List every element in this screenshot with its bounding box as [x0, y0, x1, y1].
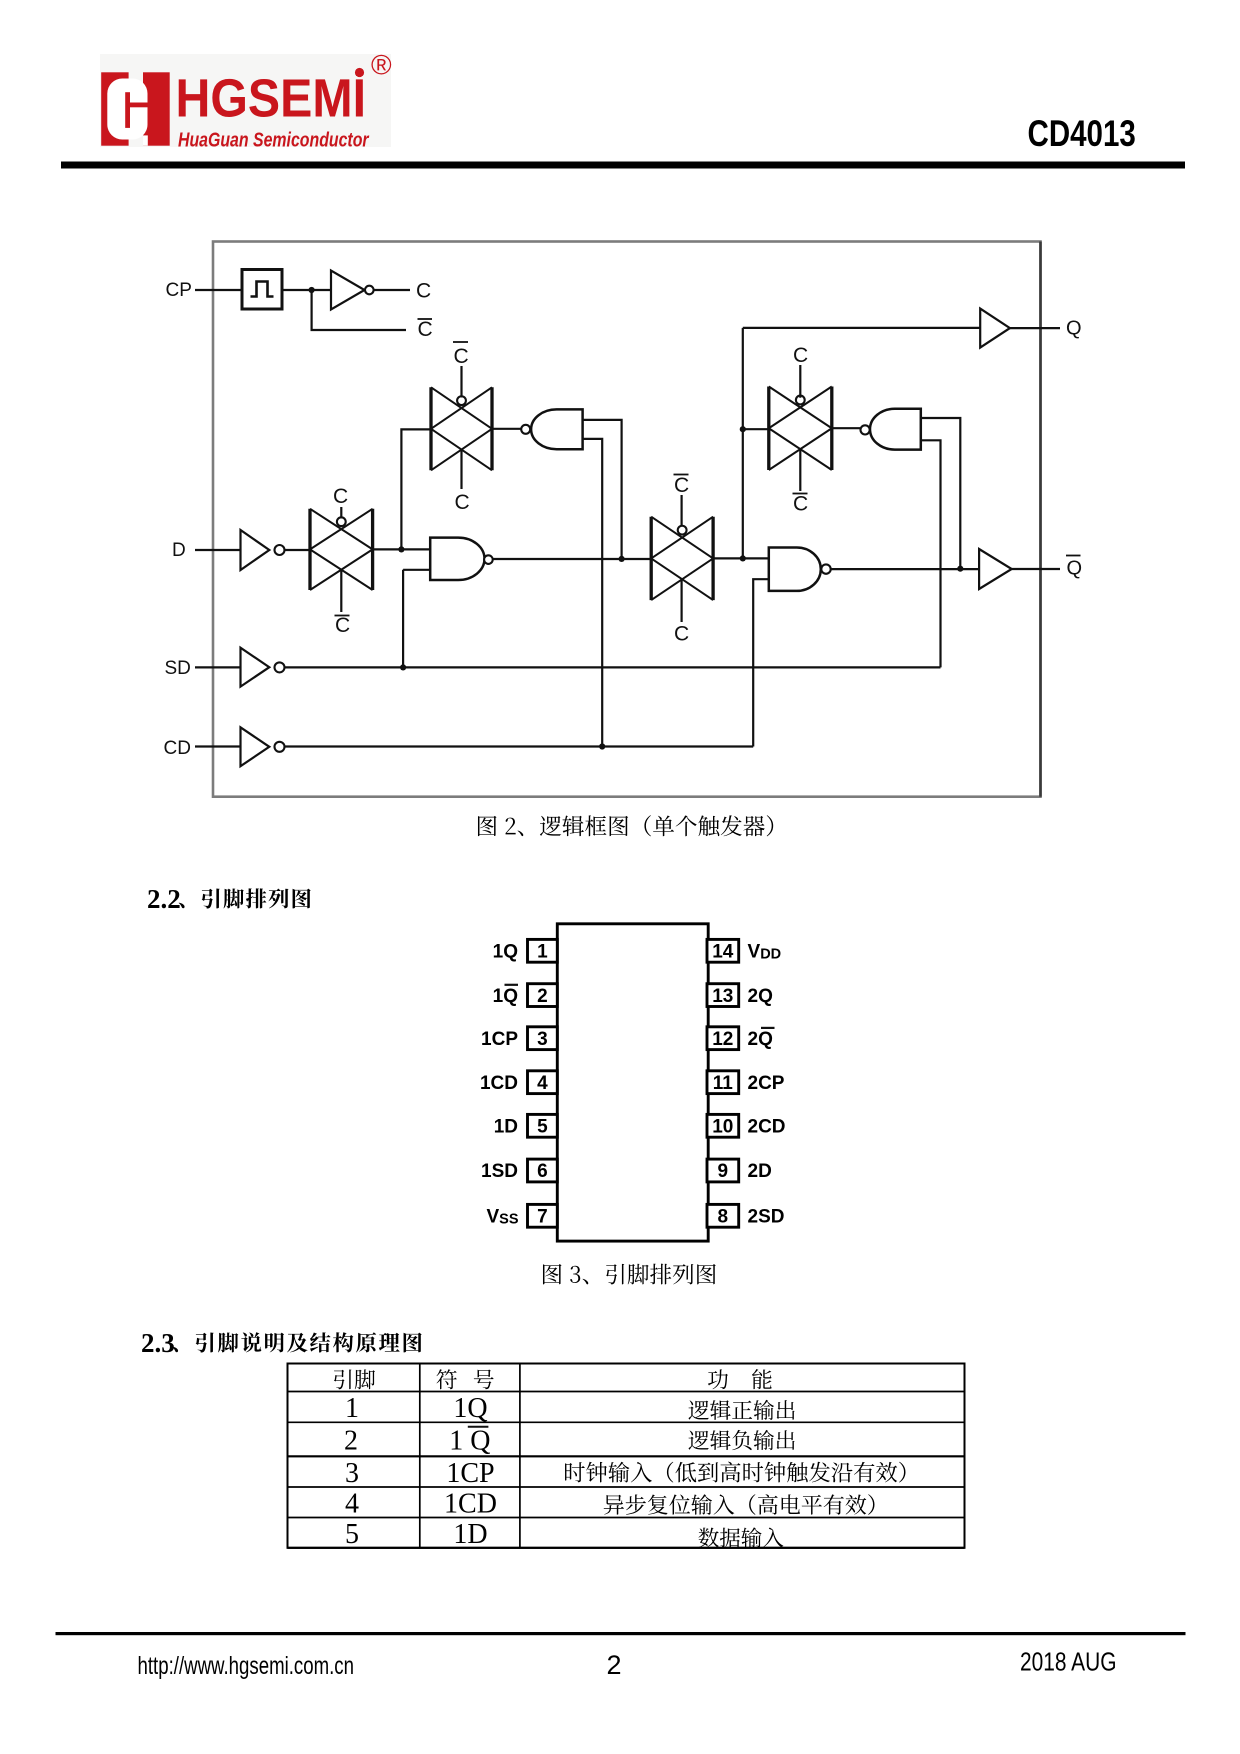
svg-text:2018 AUG: 2018 AUG [1020, 1649, 1117, 1677]
svg-text:4: 4 [537, 1073, 548, 1094]
svg-text:14: 14 [712, 942, 734, 963]
svg-text:C: C [454, 345, 469, 368]
svg-text:2.2: 2.2 [147, 884, 181, 914]
svg-text:1Q: 1Q [493, 986, 518, 1007]
svg-text:C: C [455, 491, 470, 514]
svg-text:CD4013: CD4013 [1028, 113, 1136, 154]
svg-text:2.3: 2.3 [141, 1328, 175, 1358]
svg-text:6: 6 [537, 1161, 548, 1182]
svg-text:13: 13 [712, 986, 733, 1007]
svg-text:CP: CP [166, 280, 192, 301]
svg-text:CD: CD [164, 738, 191, 759]
svg-text:1: 1 [537, 942, 548, 963]
svg-text:1 Q: 1 Q [449, 1426, 490, 1457]
svg-text:1CP: 1CP [446, 1458, 494, 1489]
svg-text:1D: 1D [494, 1117, 518, 1138]
svg-text:2D: 2D [748, 1161, 772, 1182]
svg-text:2CP: 2CP [748, 1073, 785, 1094]
svg-text:4: 4 [345, 1489, 359, 1520]
svg-text:VSS: VSS [486, 1207, 518, 1228]
svg-text:1CP: 1CP [481, 1029, 518, 1050]
svg-text:1Q: 1Q [493, 942, 518, 963]
svg-text:HGSEMİ: HGSEMİ [176, 70, 367, 129]
svg-text:1Q: 1Q [453, 1393, 487, 1424]
svg-text:Q: Q [1067, 558, 1083, 580]
svg-text:2: 2 [606, 1650, 621, 1680]
svg-text:2Q: 2Q [748, 1029, 773, 1050]
svg-text:http://www.hgsemi.com.cn: http://www.hgsemi.com.cn [138, 1652, 355, 1680]
svg-text:5: 5 [537, 1117, 548, 1138]
svg-text:C: C [793, 344, 808, 367]
svg-text:SD: SD [165, 658, 191, 679]
svg-text:9: 9 [718, 1161, 729, 1182]
svg-text:2: 2 [537, 986, 548, 1007]
svg-text:C: C [416, 280, 431, 303]
svg-text:1CD: 1CD [444, 1489, 497, 1520]
svg-text:2: 2 [344, 1426, 358, 1457]
svg-text:C: C [335, 614, 350, 637]
svg-text:C: C [333, 485, 348, 508]
svg-text:2Q: 2Q [748, 986, 773, 1007]
svg-text:1D: 1D [453, 1519, 487, 1550]
svg-text:2SD: 2SD [748, 1207, 785, 1228]
svg-text:10: 10 [712, 1117, 733, 1138]
svg-text:1: 1 [345, 1393, 359, 1424]
svg-text:7: 7 [537, 1207, 548, 1228]
svg-text:D: D [172, 540, 186, 561]
svg-text:5: 5 [345, 1519, 359, 1550]
svg-text:1CD: 1CD [480, 1073, 518, 1094]
svg-text:C: C [793, 493, 808, 516]
svg-text:®: ® [371, 50, 392, 81]
svg-text:3: 3 [537, 1029, 548, 1050]
svg-text:VDD: VDD [748, 942, 782, 963]
svg-text:3: 3 [345, 1458, 359, 1489]
svg-text:C: C [674, 474, 689, 497]
svg-text:8: 8 [718, 1207, 729, 1228]
svg-text:C: C [418, 318, 433, 341]
svg-text:HuaGuan Semiconductor: HuaGuan Semiconductor [178, 130, 370, 152]
svg-text:12: 12 [712, 1029, 733, 1050]
svg-text:2CD: 2CD [748, 1117, 786, 1138]
svg-text:1SD: 1SD [481, 1161, 518, 1182]
svg-text:Q: Q [1066, 318, 1082, 340]
svg-text:11: 11 [713, 1073, 734, 1094]
svg-text:C: C [674, 623, 689, 646]
